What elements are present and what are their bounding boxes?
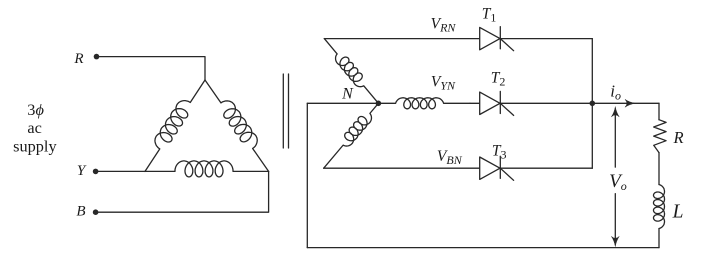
svg-text:io: io <box>610 81 621 102</box>
wye winding B-phase coil <box>319 100 383 172</box>
wire bottom rail <box>307 247 659 249</box>
svg-text:supply: supply <box>13 137 57 156</box>
wire B-phase to T3 anode <box>324 167 480 169</box>
svg-text:N: N <box>341 86 354 103</box>
wire T2 cathode to bus <box>500 102 592 104</box>
delta winding Y-B (bottom coil) <box>145 161 269 177</box>
output junction dot <box>590 101 596 107</box>
svg-text:T1: T1 <box>482 6 497 25</box>
svg-text:ac: ac <box>27 118 41 137</box>
svg-text:3ϕ: 3ϕ <box>27 100 44 119</box>
thyristor T3 <box>480 156 514 180</box>
wire L to bottom rail <box>658 229 660 248</box>
wire R to delta apex <box>97 57 206 80</box>
wire cathode bus <box>591 39 593 169</box>
wire B to delta <box>96 171 269 212</box>
terminal R dot <box>94 54 100 60</box>
wire Y-phase to T2 anode <box>470 102 480 104</box>
svg-text:T2: T2 <box>491 69 506 88</box>
svg-text:B: B <box>76 204 85 220</box>
terminal B dot <box>93 209 99 215</box>
svg-text:R: R <box>73 51 83 67</box>
svg-text:T3: T3 <box>492 143 507 162</box>
thyristor T2 <box>480 91 514 115</box>
svg-text:L: L <box>672 201 684 222</box>
delta winding R-B (right leg coil) <box>201 74 277 174</box>
voltage arrow V_o up <box>614 111 616 168</box>
svg-text:VRN: VRN <box>431 15 457 34</box>
wye winding R-phase coil <box>320 35 383 107</box>
svg-text:VYN: VYN <box>431 73 456 92</box>
wire left rail <box>306 103 308 247</box>
resistor R <box>654 120 666 153</box>
delta winding R-Y (left leg coil) <box>137 75 210 175</box>
current arrow i_o <box>625 99 635 107</box>
wire T1 cathode to bus <box>500 38 592 40</box>
wire neutral N to left rail <box>307 102 378 104</box>
wire R to L <box>658 153 660 185</box>
voltage arrow V_o down <box>614 194 616 243</box>
inductor L coil <box>654 184 665 228</box>
wire output to load <box>592 102 659 104</box>
svg-text:Vo: Vo <box>609 171 627 193</box>
wire T3 cathode to bus <box>500 167 592 169</box>
wye winding Y-phase coil <box>378 98 470 109</box>
equivalence bar 2 <box>288 74 290 148</box>
svg-text:Y: Y <box>77 163 87 179</box>
svg-text:VBN: VBN <box>437 148 463 167</box>
equivalence bar 1 <box>282 74 284 148</box>
svg-text:R: R <box>672 128 683 147</box>
node N dot <box>376 101 382 107</box>
terminal Y dot <box>93 169 99 175</box>
thyristor T1 <box>480 27 514 51</box>
wire R-phase to T1 anode <box>324 38 479 40</box>
wire Y to delta <box>96 170 145 172</box>
wire load top <box>658 103 660 119</box>
